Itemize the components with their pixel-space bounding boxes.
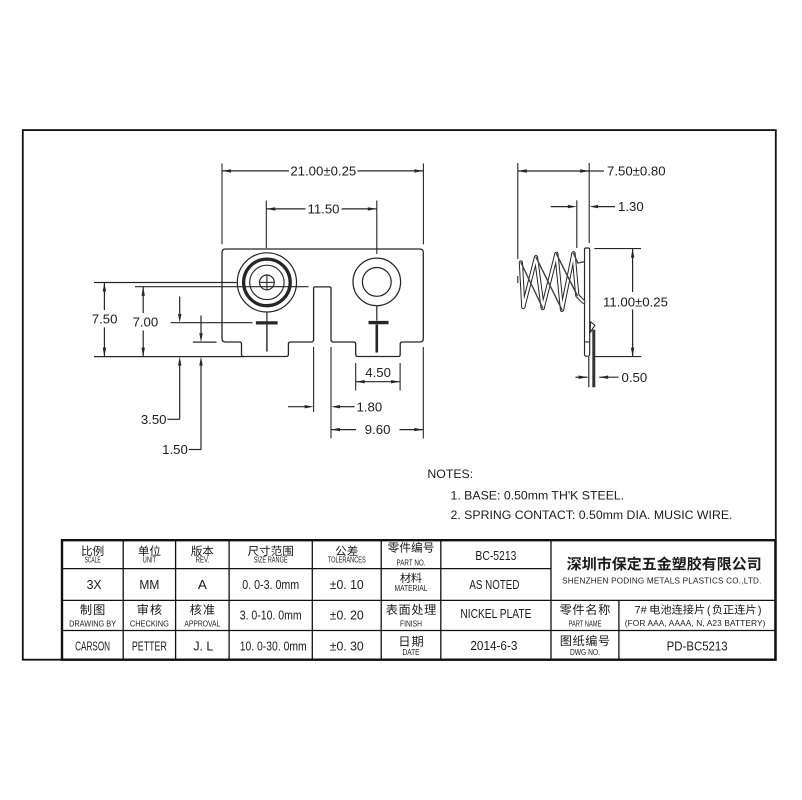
svg-text:2014-6-3: 2014-6-3 bbox=[470, 638, 517, 653]
header cell 版本/REV. bbox=[191, 545, 213, 564]
dim 4.50 bbox=[356, 363, 400, 391]
ref line through rivet centre bbox=[94, 282, 237, 284]
svg-text:PETTER: PETTER bbox=[132, 638, 167, 653]
dim 1.30 bbox=[551, 199, 644, 248]
svg-text:3.50: 3.50 bbox=[141, 412, 167, 427]
header 审核/CHECKING bbox=[130, 604, 169, 629]
header 日期/DATE bbox=[400, 636, 422, 657]
svg-text:CHECKING: CHECKING bbox=[130, 618, 169, 628]
svg-text:7.50: 7.50 bbox=[92, 311, 118, 326]
svg-text:2. SPRING CONTACT: 0.50mm DIA.: 2. SPRING CONTACT: 0.50mm DIA. MUSIC WIR… bbox=[451, 508, 733, 522]
svg-text:21.00±0.25: 21.00±0.25 bbox=[290, 164, 356, 179]
svg-text:TOLERANCES: TOLERANCES bbox=[328, 555, 366, 565]
svg-text:±0. 20: ±0. 20 bbox=[330, 608, 364, 623]
value NICKEL PLATE bbox=[460, 607, 531, 621]
notes text bbox=[427, 467, 732, 522]
header 零件名称/PART NAME bbox=[560, 604, 610, 628]
svg-text:11.00±0.25: 11.00±0.25 bbox=[603, 294, 668, 309]
svg-text:9.60: 9.60 bbox=[365, 422, 391, 437]
header cell 零件编号/PART NO. bbox=[388, 542, 434, 567]
svg-text:(: ( bbox=[707, 605, 711, 617]
svg-text:DRAWING BY: DRAWING BY bbox=[69, 618, 116, 628]
rivet crosshair bbox=[260, 275, 275, 290]
svg-text:3X: 3X bbox=[87, 577, 102, 592]
dim 1.50 bbox=[162, 316, 203, 458]
value 2014-6-3 bbox=[470, 638, 517, 653]
dim 7.50±0.80 bbox=[518, 163, 666, 283]
dim 11.50 bbox=[266, 201, 377, 255]
svg-text:MM: MM bbox=[139, 577, 159, 592]
svg-text:NICKEL PLATE: NICKEL PLATE bbox=[460, 607, 531, 621]
value ±0.20 bbox=[330, 608, 364, 623]
value BC-5213 bbox=[475, 548, 516, 563]
svg-text:0. 0-3. 0mm: 0. 0-3. 0mm bbox=[242, 578, 299, 592]
value 3.0-10.0mm bbox=[240, 609, 302, 623]
ref line 1.50 datum bbox=[193, 341, 217, 343]
svg-text:7#: 7# bbox=[635, 605, 648, 617]
svg-text:1.80: 1.80 bbox=[357, 399, 383, 414]
svg-text:7.00: 7.00 bbox=[133, 314, 159, 329]
header 材料/MATERIAL bbox=[395, 573, 428, 593]
svg-text:1. BASE: 0.50mm TH'K STEEL.: 1. BASE: 0.50mm TH'K STEEL. bbox=[451, 489, 625, 503]
value 10.0-30.0mm bbox=[240, 639, 307, 653]
svg-text:UNIT: UNIT bbox=[143, 555, 157, 565]
value 3X bbox=[87, 577, 102, 592]
svg-text:SIZE RANGE: SIZE RANGE bbox=[254, 555, 288, 565]
svg-text:DATE: DATE bbox=[403, 647, 420, 657]
header cell 比例/SCALE bbox=[82, 545, 103, 564]
tail barb bbox=[590, 322, 595, 333]
ref line 3.50 datum bbox=[171, 322, 253, 324]
value 0.0-3.0mm bbox=[242, 578, 299, 592]
svg-text:PART NO.: PART NO. bbox=[397, 557, 426, 567]
header cell 公差/TOLERANCES bbox=[328, 545, 366, 564]
value part name 7#电池连接片 bbox=[625, 604, 766, 628]
header cell 单位/UNIT bbox=[138, 545, 160, 564]
right hole circles bbox=[353, 258, 401, 306]
svg-text:±0. 30: ±0. 30 bbox=[330, 638, 364, 653]
svg-text:SHENZHEN PODING METALS PLASTIC: SHENZHEN PODING METALS PLASTICS CO.,LTD. bbox=[562, 576, 761, 585]
svg-text:3. 0-10. 0mm: 3. 0-10. 0mm bbox=[240, 609, 302, 623]
svg-text:AS NOTED: AS NOTED bbox=[469, 577, 519, 592]
svg-text:PD-BC5213: PD-BC5213 bbox=[667, 638, 728, 653]
value A bbox=[198, 577, 207, 592]
svg-text:7.50±0.80: 7.50±0.80 bbox=[607, 164, 666, 179]
svg-text:REV.: REV. bbox=[196, 555, 210, 565]
value MM bbox=[139, 577, 159, 592]
spring coil wire bbox=[521, 253, 584, 309]
value AS NOTED bbox=[469, 577, 519, 592]
value ±0.10 bbox=[330, 577, 364, 592]
svg-text:4.50: 4.50 bbox=[365, 365, 391, 380]
svg-text:SCALE: SCALE bbox=[85, 555, 101, 565]
svg-text:1.30: 1.30 bbox=[618, 199, 644, 214]
svg-text:NOTES:: NOTES: bbox=[427, 467, 473, 481]
svg-text:A: A bbox=[198, 577, 207, 592]
value J.L bbox=[193, 638, 213, 653]
value CARSON bbox=[75, 638, 110, 653]
svg-text:11.50: 11.50 bbox=[307, 202, 339, 217]
value ±0.30 bbox=[330, 638, 364, 653]
svg-text:(FOR AAA, AAAA, N, A23 BATTERY: (FOR AAA, AAAA, N, A23 BATTERY) bbox=[625, 618, 766, 628]
drawing border frame bbox=[23, 130, 776, 660]
value PD-BC5213 bbox=[667, 638, 728, 653]
positive rivet contact circles bbox=[237, 253, 296, 312]
svg-text:10. 0-30. 0mm: 10. 0-30. 0mm bbox=[240, 639, 307, 653]
ref line 7.00 datum bbox=[135, 286, 309, 288]
solder tail bbox=[589, 330, 594, 388]
dim 7.00 bbox=[133, 287, 159, 357]
dim 11.00±0.25 bbox=[594, 249, 668, 357]
svg-text:1.50: 1.50 bbox=[162, 442, 188, 457]
title block grid bbox=[62, 540, 775, 660]
svg-text:MATERIAL: MATERIAL bbox=[395, 583, 428, 593]
dim 1.80 bbox=[288, 347, 382, 439]
dim 3.50 bbox=[141, 297, 182, 427]
svg-text:J. L: J. L bbox=[193, 638, 213, 653]
dim 0.50 bbox=[576, 370, 648, 385]
svg-text:DWG NO.: DWG NO. bbox=[570, 647, 600, 657]
header 图纸编号/DWG NO. bbox=[561, 635, 609, 657]
svg-text:BC-5213: BC-5213 bbox=[475, 548, 516, 563]
value PETTER bbox=[132, 638, 167, 653]
left solder lug symbol bbox=[256, 312, 278, 352]
header 核准/APPROVAL bbox=[184, 604, 220, 628]
svg-text:±0. 10: ±0. 10 bbox=[330, 577, 364, 592]
header 表面处理/FINISH bbox=[386, 604, 436, 628]
svg-text:): ) bbox=[758, 605, 762, 617]
svg-text:0.50: 0.50 bbox=[622, 370, 648, 385]
svg-text:PART NAME: PART NAME bbox=[568, 618, 601, 628]
bottom datum line bbox=[94, 356, 244, 358]
dim 7.50 bbox=[92, 283, 118, 357]
svg-text:CARSON: CARSON bbox=[75, 638, 110, 653]
dim 21.00±0.25 bbox=[222, 164, 423, 245]
svg-text:APPROVAL: APPROVAL bbox=[184, 618, 220, 628]
part outline (base plate top view) bbox=[222, 249, 423, 357]
header 制图/DRAWING BY bbox=[69, 604, 116, 628]
svg-text:FINISH: FINISH bbox=[400, 618, 422, 628]
right solder lug symbol bbox=[369, 306, 389, 353]
dim 9.60 bbox=[331, 347, 423, 439]
header cell 尺寸范围/SIZE RANGE bbox=[248, 545, 293, 564]
company name bbox=[562, 556, 761, 585]
contact plate side view bbox=[585, 248, 590, 356]
